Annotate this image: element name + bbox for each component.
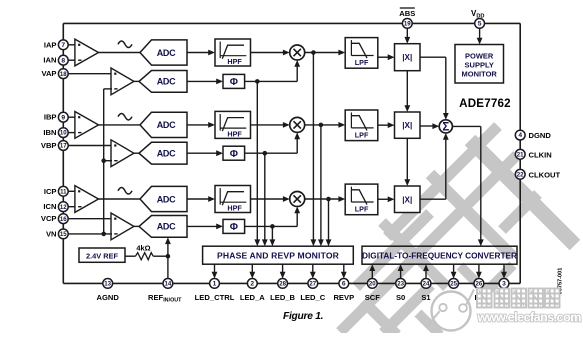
- multiplier X channel C: [290, 192, 305, 207]
- svg-text:2.4V REF: 2.4V REF: [86, 251, 119, 260]
- svg-text:2: 2: [250, 281, 254, 288]
- svg-text:5: 5: [478, 21, 482, 28]
- svg-text:VAP: VAP: [41, 69, 56, 78]
- wire: multiplier junction down to phase-revp monitor channel A: [312, 53, 314, 240]
- svg-text:21: 21: [517, 151, 524, 158]
- svg-text:PHASE AND REVP MONITOR: PHASE AND REVP MONITOR: [217, 250, 340, 260]
- digital-to-frequency converter block: [362, 246, 517, 264]
- LPF block channel A: [345, 38, 378, 69]
- phase-shift block (PHI) channel B: [223, 146, 245, 160]
- HPF block channel C: [215, 186, 251, 213]
- wire: multiplier junction down to phase-revp monitor channel B: [320, 125, 322, 240]
- pin 11 ICP: [58, 186, 68, 196]
- svg-text:27: 27: [309, 281, 316, 288]
- wire: VN bus vertical: [103, 89, 105, 234]
- pin 13 AGND: [103, 279, 113, 289]
- pin 12 ICN: [58, 202, 68, 212]
- multiplier X channel B: [290, 117, 305, 132]
- svg-text:IBP: IBP: [44, 113, 57, 122]
- svg-text:Σ: Σ: [442, 122, 449, 134]
- svg-text:AGND: AGND: [97, 293, 120, 302]
- watermark logo small circle 1: [439, 304, 446, 311]
- watermark logo link line upper: [466, 290, 474, 305]
- svg-text:Figure 1.: Figure 1.: [283, 311, 323, 322]
- wire: phase block output channel B: [245, 152, 298, 154]
- wire: pin 8 to amp A - input: [68, 59, 76, 61]
- wire: LPF to absolute value block channel C: [378, 198, 389, 200]
- watermark chinese text (stylized): [477, 289, 492, 308]
- node: reference node: [166, 254, 171, 259]
- wire: HPF to multiplier channel A: [251, 52, 284, 54]
- svg-text:ADC: ADC: [157, 48, 176, 58]
- svg-text:CLKOUT: CLKOUT: [529, 170, 561, 179]
- wire: amp C output to ADC: [99, 198, 141, 200]
- svg-text:22: 22: [517, 171, 524, 178]
- svg-text:13: 13: [104, 281, 111, 288]
- svg-text:LED_B: LED_B: [270, 293, 295, 302]
- wire: outer frame bottom border: [63, 282, 520, 284]
- wire: phase monitor output to LED_CTRL: [214, 264, 216, 272]
- pin 24 S1: [421, 279, 431, 289]
- svg-text:LPF: LPF: [355, 204, 369, 213]
- svg-text:6: 6: [342, 281, 346, 288]
- wire: pin 17 to voltage amp B + input: [68, 145, 112, 147]
- absolute value block |X| channel A: [395, 44, 421, 71]
- svg-text:16: 16: [60, 216, 67, 223]
- pin 10 IBN: [58, 128, 68, 138]
- wire: phase output up into multiplier channel C: [296, 213, 298, 227]
- svg-text:25: 25: [450, 281, 457, 288]
- svg-text:Φ: Φ: [230, 77, 238, 88]
- svg-text:15: 15: [60, 231, 67, 238]
- wire: HPF to multiplier channel C: [251, 198, 284, 200]
- wire: phase block output channel C: [245, 225, 298, 227]
- wire: ref node up into voltage ADC C: [167, 244, 169, 256]
- svg-text:7: 7: [61, 42, 65, 49]
- svg-text:HPF: HPF: [227, 129, 242, 138]
- wire: phase monitor output to LED_C: [312, 264, 314, 272]
- wire: pin 7 to amp A + input: [68, 44, 76, 46]
- ADC: voltage channel B: [139, 142, 187, 164]
- wire: pin 18 to voltage amp A + input: [68, 73, 112, 75]
- wire: phase output up into multiplier channel B: [296, 138, 298, 153]
- wire: pin 11 to amp C + input: [68, 190, 76, 192]
- svg-text:ICP: ICP: [44, 187, 57, 196]
- wire: multiplier to LPF channel C: [305, 198, 340, 200]
- HPF block channel B: [215, 111, 251, 138]
- pin 5 VDD: [475, 19, 485, 29]
- node: phase output junction channel A: [255, 79, 260, 84]
- watermark gray diagonal bands: [340, 126, 575, 335]
- wire: voltage ADC to phase block channel C: [187, 225, 217, 227]
- svg-text:LED_A: LED_A: [240, 293, 265, 302]
- node: VN bus junction at amp B: [101, 158, 106, 163]
- svg-text:DIGITAL-TO-FREQUENCY CONVERTER: DIGITAL-TO-FREQUENCY CONVERTER: [362, 251, 517, 260]
- wire: pin 9 to amp B + input: [68, 116, 76, 118]
- ADC: voltage channel A: [139, 71, 187, 93]
- op-amp: voltage channel B amp: [111, 140, 134, 167]
- svg-text:ADC: ADC: [157, 222, 176, 232]
- resistor 4k ohm: [136, 253, 154, 260]
- phase-shift block (PHI) channel C: [223, 219, 245, 233]
- svg-text:LED_CTRL: LED_CTRL: [195, 293, 235, 302]
- wire: phase output up into multiplier channel A: [296, 66, 298, 81]
- wire: outer frame left border: [62, 23, 64, 283]
- pin 14 REF IN/OUT: [163, 279, 173, 289]
- wire: VN bus to voltage amp A - input: [104, 88, 112, 90]
- svg-text:ABS: ABS: [399, 9, 415, 18]
- svg-text:|X|: |X|: [402, 195, 412, 204]
- wire: summer output to digital-to-frequency converter: [452, 125, 480, 127]
- op-amp: voltage channel A amp: [111, 68, 134, 95]
- svg-text:9: 9: [61, 114, 65, 121]
- wire: voltage ADC to phase block channel A: [187, 80, 217, 82]
- pin 23 S0: [396, 279, 406, 289]
- wire: reference to resistor: [125, 255, 136, 257]
- wire: phase monitor output to LED_A: [251, 264, 253, 272]
- svg-text:26: 26: [476, 281, 483, 288]
- wire: converter output to F1: [453, 264, 455, 272]
- svg-text:8: 8: [61, 57, 65, 64]
- wire: HPF to multiplier channel B: [251, 124, 284, 126]
- wire: pin 15 VN to voltage amp C - input: [68, 233, 112, 235]
- svg-text:VCP: VCP: [41, 214, 57, 223]
- wire: multiplier junction down to phase-revp monitor channel C: [328, 199, 330, 240]
- pin 16 VCP: [58, 214, 68, 224]
- svg-text:CLKIN: CLKIN: [529, 150, 552, 159]
- HPF block channel A: [215, 39, 251, 66]
- watermark logo big circle: [432, 292, 471, 331]
- svg-text:HPF: HPF: [227, 203, 242, 212]
- pin 2 LED_A: [247, 279, 257, 289]
- wire: phase junction down to phase-revp monitor channel A: [256, 81, 258, 239]
- wire: pin 5 VDD down to power supply monitor: [479, 28, 481, 38]
- wire: phase monitor output to LED_B: [282, 264, 284, 272]
- ADC: voltage channel C: [139, 216, 187, 238]
- op-amp: current channel C PGA: [75, 186, 99, 213]
- svg-text:S1: S1: [421, 293, 431, 302]
- wire: voltage amp C to ADC: [134, 225, 140, 227]
- wire: outer frame top border: [63, 22, 520, 24]
- wire: pin 16 to voltage amp C + input: [68, 218, 112, 220]
- wire: multiplier to LPF channel A: [305, 52, 340, 54]
- wire: amp A output to ADC: [99, 52, 141, 54]
- svg-text:24: 24: [423, 281, 430, 288]
- node: phase output junction channel B: [263, 151, 268, 156]
- svg-text:ADC: ADC: [157, 77, 176, 87]
- svg-text:14: 14: [165, 281, 172, 288]
- wire: voltage ADC to phase block channel B: [187, 152, 217, 154]
- svg-text:10: 10: [60, 130, 67, 137]
- pin 22 CLKOUT: [515, 169, 525, 179]
- summer SIGMA: [439, 120, 452, 133]
- wire: |X| A to |X| B (ABS chain): [406, 71, 408, 106]
- ADC: current channel A: [140, 40, 187, 65]
- absolute value block |X| channel B: [395, 112, 421, 138]
- svg-text:ADE7762: ADE7762: [459, 97, 511, 110]
- LPF block channel C: [345, 184, 378, 215]
- ADC: current channel C: [140, 186, 187, 211]
- wire: amp B output to ADC: [99, 124, 141, 126]
- svg-text:4kΩ: 4kΩ: [136, 243, 150, 252]
- svg-text:17: 17: [60, 143, 67, 150]
- pin 4 DGND: [515, 130, 525, 140]
- svg-text:11: 11: [60, 188, 67, 195]
- power supply monitor block: [455, 45, 504, 84]
- wire: voltage amp A to ADC: [134, 80, 140, 82]
- svg-text:LED_C: LED_C: [300, 293, 325, 302]
- wire: pin 12 to amp C - input: [68, 206, 76, 208]
- node: multiplier output junction channel B: [319, 123, 324, 128]
- svg-text:POWER: POWER: [465, 52, 494, 61]
- watermark logo link line lower: [428, 311, 439, 325]
- phase and revp monitor block: [203, 246, 354, 264]
- wire: pin 19 ABS down to |X| A: [406, 28, 408, 37]
- pin 21 CLKIN: [515, 149, 525, 159]
- wire: converter output to CF: [503, 264, 505, 272]
- svg-text:1: 1: [213, 281, 217, 288]
- svg-text:LPF: LPF: [355, 58, 369, 67]
- svg-text:12: 12: [60, 204, 67, 211]
- multiplier X channel A: [290, 45, 305, 60]
- wire: SCF input up to converter: [371, 271, 373, 279]
- svg-text:Φ: Φ: [230, 149, 238, 160]
- node: multiplier output junction channel C: [326, 197, 331, 202]
- svg-text:4: 4: [518, 132, 522, 139]
- node: phase output junction channel C: [270, 224, 275, 229]
- svg-text:HPF: HPF: [227, 57, 242, 66]
- svg-text:3: 3: [502, 281, 506, 288]
- wire: ref node down to pin 14: [167, 256, 169, 278]
- wire: outer frame right border: [519, 23, 521, 283]
- wire: S0 input up to converter: [400, 271, 402, 279]
- op-amp: current channel B PGA: [75, 112, 99, 139]
- wire: phase monitor output to REVP: [343, 264, 345, 272]
- pin 7 IAP: [58, 40, 68, 50]
- pin 28 LED_B: [278, 279, 288, 289]
- pin 27 LED_C: [308, 279, 318, 289]
- svg-text:18: 18: [60, 71, 67, 78]
- wire: LPF to absolute value block channel A: [378, 56, 389, 58]
- wire: ADC to HPF channel A: [187, 52, 209, 54]
- svg-text:VBP: VBP: [41, 141, 57, 150]
- svg-text:|X|: |X|: [402, 121, 412, 130]
- svg-text:ADC: ADC: [157, 120, 176, 130]
- pin 26 F2: [474, 279, 484, 289]
- svg-text:REVP: REVP: [333, 293, 354, 302]
- wire: phase block output channel A: [245, 80, 298, 82]
- pin 17 VBP: [58, 141, 68, 151]
- wire: pin 10 to amp B - input: [68, 132, 76, 134]
- svg-text:SCF: SCF: [365, 293, 381, 302]
- pin 18 VAP: [58, 69, 68, 79]
- svg-text:ADC: ADC: [157, 194, 176, 204]
- 2.4V reference block: [79, 248, 125, 262]
- node: multiplier output junction channel A: [311, 50, 316, 55]
- svg-text:VN: VN: [46, 229, 57, 238]
- svg-text:28: 28: [279, 281, 286, 288]
- wire: ADC to HPF channel B: [187, 124, 209, 126]
- wire: phase junction down to phase-revp monitor channel C: [271, 226, 273, 239]
- svg-text:Φ: Φ: [230, 222, 238, 233]
- node: VN bus junction at amp C: [101, 232, 106, 237]
- pin 20 SCF: [367, 279, 377, 289]
- op-amp: current channel A PGA: [75, 39, 99, 66]
- wire: converter output to F2: [478, 264, 480, 272]
- svg-text:MONITOR: MONITOR: [462, 70, 498, 79]
- svg-text:www.elecfans.com: www.elecfans.com: [477, 311, 582, 325]
- svg-text:IAP: IAP: [44, 40, 57, 49]
- wire: S1 input up to converter: [425, 271, 427, 279]
- sine wave symbol channel C: [118, 188, 132, 195]
- absolute value block |X| channel C: [395, 186, 421, 213]
- pin 8 IAN: [58, 55, 68, 65]
- pin 6 REVP: [339, 279, 349, 289]
- watermark logo small circle 2: [459, 304, 467, 312]
- wire: |X| B output to summer: [420, 125, 433, 127]
- pin 1 LED_CTRL: [210, 279, 220, 289]
- wire: |X| C output to summer: [420, 198, 446, 200]
- svg-text:DGND: DGND: [529, 131, 552, 140]
- svg-text:IAN: IAN: [43, 56, 56, 65]
- wire: LPF to absolute value block channel B: [378, 124, 389, 126]
- svg-text:LPF: LPF: [355, 130, 369, 139]
- pin 25 F1: [449, 279, 459, 289]
- wire: voltage amp B to ADC: [134, 152, 140, 154]
- sine wave symbol channel B: [118, 113, 132, 120]
- pin 9 IBP: [58, 112, 68, 122]
- pin 3 CF: [499, 279, 509, 289]
- wire: phase junction down to phase-revp monitor channel B: [264, 153, 266, 240]
- phase-shift block (PHI) channel A: [223, 74, 245, 88]
- svg-text:23: 23: [397, 281, 404, 288]
- wire: |X| B to |X| C (ABS chain): [406, 138, 408, 179]
- svg-text:S0: S0: [396, 293, 405, 302]
- ADC: current channel B: [140, 112, 187, 137]
- wire: |X| A output to summer: [420, 56, 446, 58]
- LPF block channel B: [345, 110, 378, 141]
- svg-text:ADC: ADC: [157, 149, 176, 159]
- wire: VN bus to voltage amp B - input: [104, 160, 112, 162]
- svg-text:SUPPLY: SUPPLY: [465, 61, 494, 70]
- svg-text:IBN: IBN: [43, 128, 56, 137]
- svg-text:20: 20: [369, 281, 376, 288]
- wire: ADC to HPF channel C: [187, 198, 209, 200]
- svg-text:|X|: |X|: [402, 53, 412, 62]
- pin 15 VN: [58, 229, 68, 239]
- wire: multiplier to LPF channel B: [305, 124, 340, 126]
- wire: resistor to ref node: [153, 255, 168, 257]
- svg-text:19: 19: [404, 21, 411, 28]
- pin 19 ABS: [402, 19, 412, 29]
- svg-text:ICN: ICN: [43, 202, 56, 211]
- sine wave symbol channel A: [118, 41, 132, 48]
- op-amp: voltage channel C amp: [111, 213, 134, 240]
